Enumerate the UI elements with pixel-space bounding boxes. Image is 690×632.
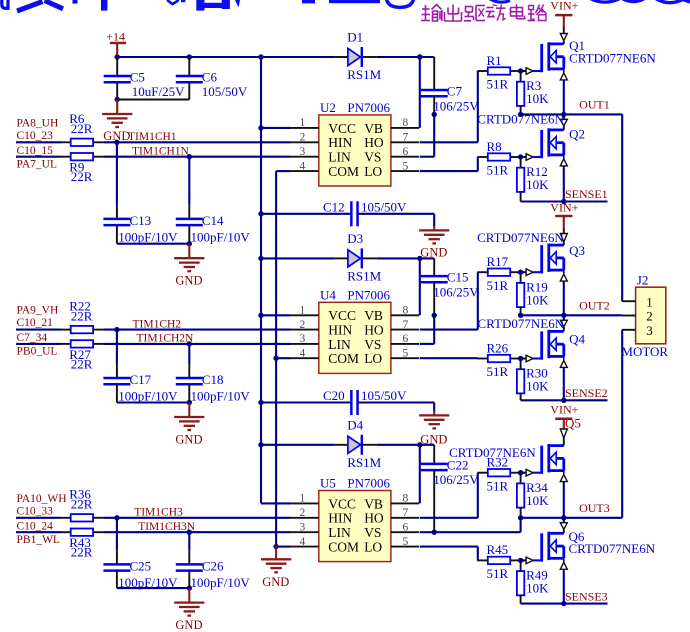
wire LO pin5 ch3 bbox=[420, 546, 478, 548]
source arrow Q4 bbox=[560, 360, 567, 367]
svg-text:C13: C13 bbox=[130, 213, 152, 228]
cut-off page title fragment 7 bbox=[196, 0, 204, 11]
transistor Q1 CRTD077NE6N bbox=[519, 42, 564, 74]
wire VS down ch2 bbox=[433, 315, 435, 344]
cut-off page title fragment 10 bbox=[235, 0, 240, 8]
svg-text:SENSE1: SENSE1 bbox=[565, 187, 608, 201]
wire source lo down ch1 bbox=[563, 166, 565, 202]
wire C5 bottom lead bbox=[116, 82, 118, 99]
resistor R45 bbox=[477, 542, 520, 581]
wire C5 top lead bbox=[116, 57, 118, 76]
svg-text:HO: HO bbox=[364, 323, 384, 338]
svg-text:10K: 10K bbox=[526, 292, 549, 307]
svg-text:U4: U4 bbox=[320, 288, 336, 303]
capacitor C17 bbox=[103, 372, 178, 404]
svg-text:TIM1CH2: TIM1CH2 bbox=[133, 318, 182, 330]
wire R19 bottom lead bbox=[520, 307, 522, 315]
junction TIM1CH1 bbox=[114, 140, 119, 145]
svg-text:VS: VS bbox=[364, 337, 381, 352]
svg-text:8: 8 bbox=[403, 305, 409, 317]
junction caps gnd bbox=[187, 241, 192, 246]
svg-text:C10_23: C10_23 bbox=[17, 130, 54, 142]
wire VCC pin1 U4 bbox=[261, 314, 291, 316]
ground COM bbox=[261, 559, 291, 589]
wire gnd stem C12 bbox=[433, 226, 435, 230]
source arrow Q6 bbox=[560, 562, 567, 569]
junction gate lo ch3 bbox=[518, 558, 523, 563]
wire source hi to phase ch2 bbox=[563, 281, 565, 315]
wire boot cap top lead ch2 bbox=[433, 258, 435, 276]
capacitor C6 bbox=[176, 70, 248, 100]
resistor R30 bbox=[517, 366, 549, 394]
svg-text:51R: 51R bbox=[487, 163, 509, 178]
svg-text:R45: R45 bbox=[487, 542, 509, 557]
svg-text:3: 3 bbox=[646, 323, 653, 338]
wire drain lead2 hi ch2 bbox=[563, 242, 565, 245]
junction phase R ch1 bbox=[518, 112, 523, 117]
junction D1 cathode/pin8 bbox=[417, 54, 422, 59]
junction gate hi ch3 bbox=[518, 470, 523, 475]
wire input TIM1CH3 left bbox=[16, 517, 61, 519]
svg-text:106/25V: 106/25V bbox=[433, 98, 479, 113]
svg-text:VIN+: VIN+ bbox=[550, 201, 578, 215]
svg-text:GND: GND bbox=[420, 432, 447, 446]
svg-text:C7: C7 bbox=[447, 84, 463, 99]
wire C14 bottom lead bbox=[188, 225, 190, 244]
junction TIM1CH3 bbox=[114, 515, 119, 520]
svg-text:22R: 22R bbox=[71, 545, 93, 560]
svg-text:OUT2: OUT2 bbox=[579, 299, 610, 313]
wire C25 top lead bbox=[116, 550, 118, 564]
wire VS to pin6 ch2 bbox=[420, 343, 434, 345]
svg-text:51R: 51R bbox=[487, 566, 509, 581]
wire HO up ch2 bbox=[477, 272, 479, 329]
wire source hi to phase ch1 bbox=[563, 80, 565, 115]
junction rail bus ch2 bbox=[258, 256, 263, 261]
wire C20 gnd drop bbox=[433, 403, 435, 412]
junction VB tap ch1 bbox=[417, 54, 422, 59]
cut-off page title fragment 2 bbox=[17, 1, 63, 12]
wire drain lead2 lo ch2 bbox=[563, 327, 565, 332]
svg-text:LIN: LIN bbox=[328, 150, 351, 165]
svg-text:D4: D4 bbox=[347, 417, 363, 432]
wire sense left ch2 bbox=[521, 399, 564, 401]
wire VS up ch3 bbox=[520, 518, 522, 532]
svg-text:VIN+: VIN+ bbox=[550, 0, 578, 12]
svg-text:10K: 10K bbox=[526, 493, 549, 508]
junction TIM1CH2N bbox=[187, 341, 192, 346]
junction phase Q ch1 bbox=[561, 112, 566, 117]
svg-text:PA7_UL: PA7_UL bbox=[17, 159, 57, 171]
wire VS to pin6 ch1 bbox=[420, 156, 434, 158]
junction gate lo ch2 bbox=[518, 356, 523, 361]
wire source lo to sense ch3 bbox=[563, 558, 565, 562]
svg-text:VB: VB bbox=[364, 308, 383, 323]
wire drain lead hi ch1 bbox=[563, 28, 565, 34]
resistor R19 bbox=[517, 279, 549, 307]
svg-text:SENSE2: SENSE2 bbox=[565, 386, 608, 400]
svg-text:PA10_WH: PA10_WH bbox=[17, 493, 67, 505]
cut-off page title fragment 15 bbox=[590, 0, 619, 2]
junction gate lo ch1 bbox=[518, 154, 523, 159]
junction sense ch3 bbox=[561, 601, 566, 606]
svg-text:GND: GND bbox=[262, 575, 289, 589]
wire C5-C6 bottom bbox=[117, 99, 189, 101]
wire input TIM1CH1N left bbox=[16, 156, 61, 158]
resistor R8 bbox=[477, 139, 520, 178]
svg-text:C10_24: C10_24 bbox=[17, 521, 54, 533]
diode D1 bbox=[334, 30, 382, 83]
wire gnd stem C5 bbox=[116, 100, 118, 114]
svg-text:C17: C17 bbox=[130, 372, 152, 387]
junction gate hi ch1 bbox=[518, 68, 523, 73]
svg-text:C10_21: C10_21 bbox=[17, 317, 54, 329]
svg-text:TIM1CH1N: TIM1CH1N bbox=[132, 146, 190, 158]
svg-text:2: 2 bbox=[646, 309, 653, 324]
svg-text:Q3: Q3 bbox=[569, 243, 585, 258]
transistor Q3 CRTD077NE6N bbox=[519, 244, 564, 276]
svg-text:51R: 51R bbox=[487, 278, 509, 293]
power VIN+ ch2 bbox=[550, 201, 578, 229]
svg-text:2: 2 bbox=[300, 132, 306, 144]
wire R30 top lead bbox=[520, 359, 522, 370]
svg-text:C15: C15 bbox=[447, 270, 469, 285]
junction TIM1CH1N bbox=[187, 154, 192, 159]
svg-text:VB: VB bbox=[364, 496, 383, 511]
svg-text:5: 5 bbox=[403, 160, 409, 172]
junction caps gnd bbox=[187, 400, 192, 405]
svg-text:5: 5 bbox=[403, 347, 409, 359]
capacitor C26 bbox=[176, 558, 251, 590]
source arrow Q2 bbox=[560, 159, 567, 166]
svg-text:100pF/10V: 100pF/10V bbox=[191, 575, 251, 590]
wire R3 bottom lead bbox=[520, 106, 522, 115]
wire VCC pin1 U5 bbox=[261, 502, 291, 504]
wire TIM1CH3 to HIN bbox=[104, 517, 291, 519]
cut-off page title fragment 11 bbox=[302, 0, 315, 3]
transistor Q5 CRTD077NE6N bbox=[519, 444, 564, 476]
junction caps gnd bbox=[187, 585, 192, 590]
wire COM pin4 U5 bbox=[276, 546, 291, 548]
wire boot cap bottom ch3 bbox=[433, 470, 435, 532]
wire rail D3 right bbox=[377, 257, 435, 259]
wire LO up ch1 bbox=[477, 157, 479, 171]
wire sense right ch1 bbox=[564, 200, 608, 202]
svg-text:SENSE3: SENSE3 bbox=[565, 589, 608, 603]
svg-text:7: 7 bbox=[403, 319, 409, 331]
resistor R49 bbox=[517, 568, 549, 596]
svg-text:4: 4 bbox=[300, 347, 306, 359]
junction sense ch2 bbox=[561, 398, 566, 403]
wire LO pin5 ch2 bbox=[420, 357, 478, 359]
svg-text:OUT3: OUT3 bbox=[579, 501, 610, 515]
wire gnd stem bbox=[188, 403, 190, 417]
wire VS right ch3 bbox=[434, 531, 520, 533]
capacitor C15 bbox=[421, 270, 480, 300]
junction C12 bus bbox=[258, 211, 263, 216]
wire R34 top lead bbox=[520, 473, 522, 484]
ground below C18 bbox=[174, 417, 204, 447]
wire rail D4 right bbox=[377, 444, 435, 446]
wire drain lead lo ch3 bbox=[563, 518, 565, 523]
svg-text:2: 2 bbox=[300, 507, 306, 519]
wire gnd stem COM bbox=[275, 547, 277, 559]
junction VS ch3 bbox=[432, 530, 437, 535]
junction rail bus ch3 bbox=[258, 442, 263, 447]
svg-text:C26: C26 bbox=[202, 558, 224, 573]
power VIN+ ch1 bbox=[550, 0, 578, 28]
cut-off page title fragment 17 bbox=[655, 0, 690, 3]
svg-text:C6: C6 bbox=[202, 70, 218, 85]
svg-text:10uF/25V: 10uF/25V bbox=[132, 84, 185, 99]
svg-text:LIN: LIN bbox=[328, 337, 351, 352]
svg-text:22R: 22R bbox=[71, 169, 93, 184]
junction phase Q ch2 bbox=[561, 313, 566, 318]
resistor R36 bbox=[60, 487, 103, 522]
wire sense right ch2 bbox=[564, 399, 608, 401]
svg-text:+14: +14 bbox=[106, 29, 125, 43]
svg-text:10K: 10K bbox=[526, 379, 549, 394]
wire R49 top lead bbox=[520, 560, 522, 571]
wire drain lead lo ch1 bbox=[563, 114, 565, 119]
wire C6 top lead bbox=[188, 57, 190, 76]
wire HO pin7 ch3 bbox=[420, 517, 478, 519]
svg-text:Q5: Q5 bbox=[565, 416, 581, 431]
svg-text:CRTD077NE6N: CRTD077NE6N bbox=[569, 541, 656, 556]
wire OUT1 down bbox=[621, 114, 623, 301]
capacitor C20 bbox=[323, 388, 407, 415]
svg-text:22R: 22R bbox=[71, 356, 93, 371]
wire OUT3 right bbox=[564, 517, 622, 519]
wire source lead hi ch3 bbox=[563, 471, 565, 475]
wire source lo down ch2 bbox=[563, 367, 565, 400]
cut-off page title fragment 8 bbox=[204, 3, 222, 8]
wire drain lead2 hi ch3 bbox=[563, 438, 565, 446]
svg-text:CRTD077NE6N: CRTD077NE6N bbox=[449, 445, 536, 460]
wire phase mid ch3 bbox=[521, 517, 564, 519]
cut-off page title fragment 6 bbox=[181, 0, 185, 2]
wire source lead hi ch1 bbox=[563, 69, 565, 73]
junction C6 tap bbox=[187, 54, 192, 59]
wire R49 bottom lead bbox=[520, 595, 522, 603]
power +14 bbox=[106, 29, 126, 57]
svg-text:22R: 22R bbox=[71, 121, 93, 136]
wire C20 left bbox=[261, 401, 351, 403]
svg-text:7: 7 bbox=[403, 507, 409, 519]
svg-text:LO: LO bbox=[364, 351, 382, 366]
wire C17 bottom lead bbox=[116, 384, 118, 402]
svg-text:22R: 22R bbox=[71, 308, 93, 323]
junction COM bus ch3 bbox=[273, 544, 278, 549]
wire C12 gnd drop bbox=[433, 214, 435, 226]
wire C18 top bbox=[188, 344, 190, 364]
wire TIM1CH1 to HIN bbox=[104, 141, 291, 143]
wire C26 bottom lead bbox=[188, 571, 190, 589]
drain arrow Q6 bbox=[560, 523, 567, 530]
wire C20 right bbox=[358, 401, 435, 403]
resistor R17 bbox=[477, 254, 520, 293]
ground below C5 bbox=[102, 114, 132, 143]
wire C12 left bbox=[261, 213, 351, 215]
wire HO up ch1 bbox=[477, 71, 479, 142]
wire C14 top bbox=[188, 157, 190, 205]
capacitor C12 bbox=[323, 199, 407, 226]
svg-text:PB1_WL: PB1_WL bbox=[17, 534, 60, 546]
svg-text:1: 1 bbox=[300, 305, 306, 317]
wire +14 rail left bbox=[117, 56, 334, 58]
svg-text:VS: VS bbox=[364, 150, 381, 165]
svg-text:106/25V: 106/25V bbox=[433, 284, 479, 299]
wire C6 bottom lead bbox=[188, 82, 190, 99]
wire drain lead2 lo ch3 bbox=[563, 529, 565, 533]
svg-text:106/25V: 106/25V bbox=[433, 472, 479, 487]
svg-text:COM: COM bbox=[328, 164, 359, 179]
wire source lead hi ch2 bbox=[563, 270, 565, 274]
svg-text:51R: 51R bbox=[487, 77, 509, 92]
wire drain lead hi ch2 bbox=[563, 229, 565, 234]
junction VS ch2 bbox=[432, 313, 437, 318]
wire gnd stem bbox=[188, 588, 190, 602]
wire VB pin8 ch2 bbox=[419, 258, 421, 315]
junction phase R ch2 bbox=[518, 313, 523, 318]
capacitor C22 bbox=[421, 457, 480, 487]
resistor R43 bbox=[60, 529, 103, 560]
svg-text:D3: D3 bbox=[347, 231, 363, 246]
junction VCC bus ch2 bbox=[258, 313, 263, 318]
ground below C14 bbox=[174, 258, 204, 288]
junction +14/C5 bbox=[115, 54, 120, 59]
wire C13 top bbox=[116, 142, 118, 205]
svg-text:VCC: VCC bbox=[328, 496, 356, 511]
resistor R6 bbox=[60, 111, 103, 146]
transistor Q6 CRTD077NE6N bbox=[519, 532, 564, 564]
svg-text:U2: U2 bbox=[320, 100, 336, 115]
svg-text:LIN: LIN bbox=[328, 525, 351, 540]
source arrow Q3 bbox=[560, 274, 567, 281]
svg-text:10K: 10K bbox=[526, 581, 549, 596]
wire C17 top bbox=[116, 330, 118, 364]
svg-text:GND: GND bbox=[420, 245, 447, 259]
wire drain lead2 lo ch1 bbox=[563, 126, 565, 130]
svg-text:C18: C18 bbox=[202, 372, 224, 387]
wire rail D3 left bbox=[261, 257, 334, 259]
wire OUT1 right bbox=[564, 113, 622, 115]
wire gnd stem C20 bbox=[433, 411, 435, 415]
capacitor C5 bbox=[104, 70, 185, 100]
wire gnd stem bbox=[188, 244, 190, 258]
junction C20 bus bbox=[258, 400, 263, 405]
wire C25 bottom lead bbox=[116, 571, 118, 589]
svg-text:TIM1CH1: TIM1CH1 bbox=[128, 131, 177, 143]
wire LO down ch3 bbox=[477, 547, 479, 561]
svg-text:3: 3 bbox=[300, 521, 306, 533]
svg-text:51R: 51R bbox=[487, 364, 509, 379]
svg-text:PA9_VH: PA9_VH bbox=[17, 305, 59, 317]
wire LO pin5 ch1 bbox=[420, 170, 478, 172]
wire C12 right bbox=[358, 213, 435, 215]
junction COM bus ch2 bbox=[273, 356, 278, 361]
subtitle 输出驱动电路 bbox=[421, 4, 547, 21]
resistor R1 bbox=[477, 53, 520, 92]
wire R3 top lead bbox=[520, 71, 522, 82]
wire R12 top lead bbox=[520, 157, 522, 168]
cut-off page title fragment 16 bbox=[622, 0, 644, 2]
svg-text:100pF/10V: 100pF/10V bbox=[191, 389, 251, 404]
wire TIM1CH2N to LIN bbox=[104, 343, 291, 345]
wire VCC pin1 U2 bbox=[261, 127, 291, 129]
wire TIM1CH2 to HIN bbox=[104, 329, 291, 331]
transistor Q2 CRTD077NE6N bbox=[519, 128, 564, 160]
svg-text:C25: C25 bbox=[130, 558, 152, 573]
source arrow Q5 bbox=[560, 475, 567, 482]
diode D3 bbox=[334, 231, 382, 284]
svg-text:VS: VS bbox=[364, 525, 381, 540]
svg-text:R17: R17 bbox=[487, 254, 509, 269]
wire HO pin7 ch1 bbox=[420, 141, 478, 143]
svg-text:VIN+: VIN+ bbox=[550, 402, 578, 416]
resistor R32 bbox=[477, 455, 520, 494]
svg-text:HIN: HIN bbox=[328, 323, 352, 338]
wire OUT3 up bbox=[621, 330, 623, 518]
junction TIM1CH2 bbox=[114, 327, 119, 332]
svg-text:100pF/10V: 100pF/10V bbox=[118, 229, 178, 244]
wire phase mid ch1 bbox=[521, 113, 564, 115]
wire boot cap top lead ch1 bbox=[433, 57, 435, 90]
svg-text:D1: D1 bbox=[347, 30, 363, 45]
resistor R22 bbox=[60, 298, 103, 333]
svg-text:C12: C12 bbox=[323, 199, 345, 214]
wire rail D4 left bbox=[261, 444, 334, 446]
svg-text:HIN: HIN bbox=[328, 135, 352, 150]
svg-text:VB: VB bbox=[364, 121, 383, 136]
drain arrow Q5 bbox=[560, 429, 567, 438]
svg-text:10K: 10K bbox=[526, 91, 549, 106]
svg-text:RS1M: RS1M bbox=[347, 268, 381, 283]
diode D4 bbox=[334, 417, 382, 470]
wire input TIM1CH3N left bbox=[16, 531, 61, 533]
capacitor C7 bbox=[421, 84, 480, 114]
svg-text:HO: HO bbox=[364, 511, 384, 526]
wire COM bus bbox=[275, 171, 277, 546]
junction TIM1CH3N bbox=[187, 530, 192, 535]
junction VB tap ch2 bbox=[417, 256, 422, 261]
wire boot cap bottom ch2 bbox=[433, 282, 435, 315]
svg-text:U5: U5 bbox=[320, 476, 336, 491]
drain arrow Q2 bbox=[560, 119, 567, 126]
wire source hi to phase ch3 bbox=[563, 482, 565, 518]
resistor R3 bbox=[517, 78, 549, 106]
svg-text:Q2: Q2 bbox=[569, 126, 585, 141]
svg-text:1: 1 bbox=[300, 117, 306, 129]
svg-text:1: 1 bbox=[300, 493, 306, 505]
wire TIM1CH1N to LIN bbox=[104, 156, 291, 158]
svg-text:RS1M: RS1M bbox=[347, 67, 381, 82]
wire VS down ch1 bbox=[433, 114, 435, 156]
svg-text:GND: GND bbox=[175, 433, 202, 447]
cut-off page title fragment 14 bbox=[490, 0, 510, 2]
svg-text:TIM1CH3N: TIM1CH3N bbox=[138, 521, 196, 533]
wire caps bottom bbox=[117, 587, 189, 589]
wire caps bottom bbox=[117, 401, 189, 403]
svg-text:TIM1CH2N: TIM1CH2N bbox=[137, 333, 195, 345]
svg-text:3: 3 bbox=[300, 146, 306, 158]
ground C12 bbox=[419, 230, 449, 259]
wire R34 bottom lead bbox=[520, 508, 522, 518]
junction phase Q ch3 bbox=[561, 515, 566, 520]
svg-text:PB0_UL: PB0_UL bbox=[17, 346, 58, 358]
capacitor C25 bbox=[103, 558, 178, 590]
svg-text:CRTD077NE6N: CRTD077NE6N bbox=[477, 111, 564, 126]
